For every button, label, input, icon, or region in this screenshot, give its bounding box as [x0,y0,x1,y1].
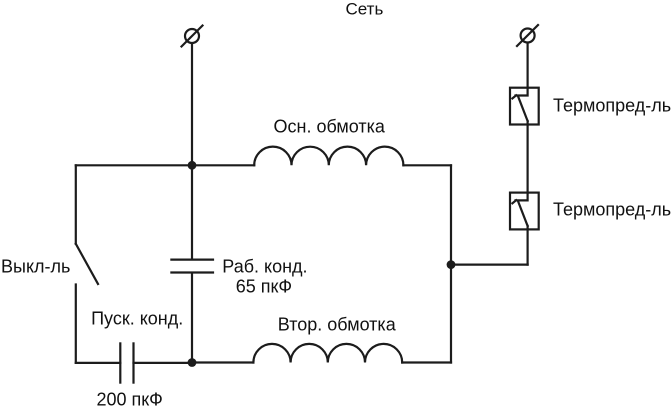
switch SA1 blade (Выкл-ль) [76,244,98,284]
svg-text:Втор. обмотка: Втор. обмотка [278,314,397,334]
wire between thermal fuses F1 and F2 [526,125,528,193]
inductor L2 (Втор. обмотка) [253,344,402,363]
thermal fuse F2 (Термопред-ль) [510,193,539,230]
svg-text:Сеть: Сеть [346,0,384,19]
wire from terminal X1 down to node A [191,44,193,166]
wire from right branch to node C [451,264,528,266]
wire from inductor L1 to right rail [403,164,451,166]
node C junction dot [447,260,456,269]
thermal fuse F1 (Термопред-ль) [510,88,539,125]
wire from switch SA1 down to bottom rail [75,285,77,363]
wire from inductor L2 to right rail [402,361,451,363]
terminal X1 (left mains) [182,26,203,47]
capacitor C2 (Пуск. конд. 200 пкФ) [120,343,133,382]
node A junction dot [188,161,197,170]
wire right rail vertical [450,165,452,362]
svg-text:Раб. конд.: Раб. конд. [222,257,307,277]
wire from terminal X2 down to thermal fuse F1 [526,43,528,88]
wire node A to inductor L1 [192,164,254,166]
wire bottom rail to capacitor C2 [76,362,121,364]
svg-text:65 пкФ: 65 пкФ [236,277,292,297]
node B junction dot [188,358,197,367]
wire from capacitor C2 to node B [134,362,193,364]
wire down to switch SA1 [75,165,77,244]
svg-text:Выкл-ль: Выкл-ль [1,256,70,276]
wire from thermal fuse F2 down [526,229,528,264]
wire node A down to capacitor C1 [191,165,193,258]
inductor L1 (Осн. обмотка) [254,147,403,166]
svg-text:Осн. обмотка: Осн. обмотка [274,117,386,137]
wire from capacitor C1 down to node B [191,274,193,363]
svg-text:Термопред-ль: Термопред-ль [553,96,671,116]
capacitor C1 (Раб. конд. 65 пкФ) [171,260,213,273]
svg-text:Пуск. конд.: Пуск. конд. [91,308,183,328]
wire from node A left to switch branch [76,164,192,166]
svg-text:Термопред-ль: Термопред-ль [553,200,671,220]
wire node B to inductor L2 [192,361,253,363]
terminal X2 (right mains) [517,25,538,46]
svg-text:200 пкФ: 200 пкФ [97,390,163,408]
